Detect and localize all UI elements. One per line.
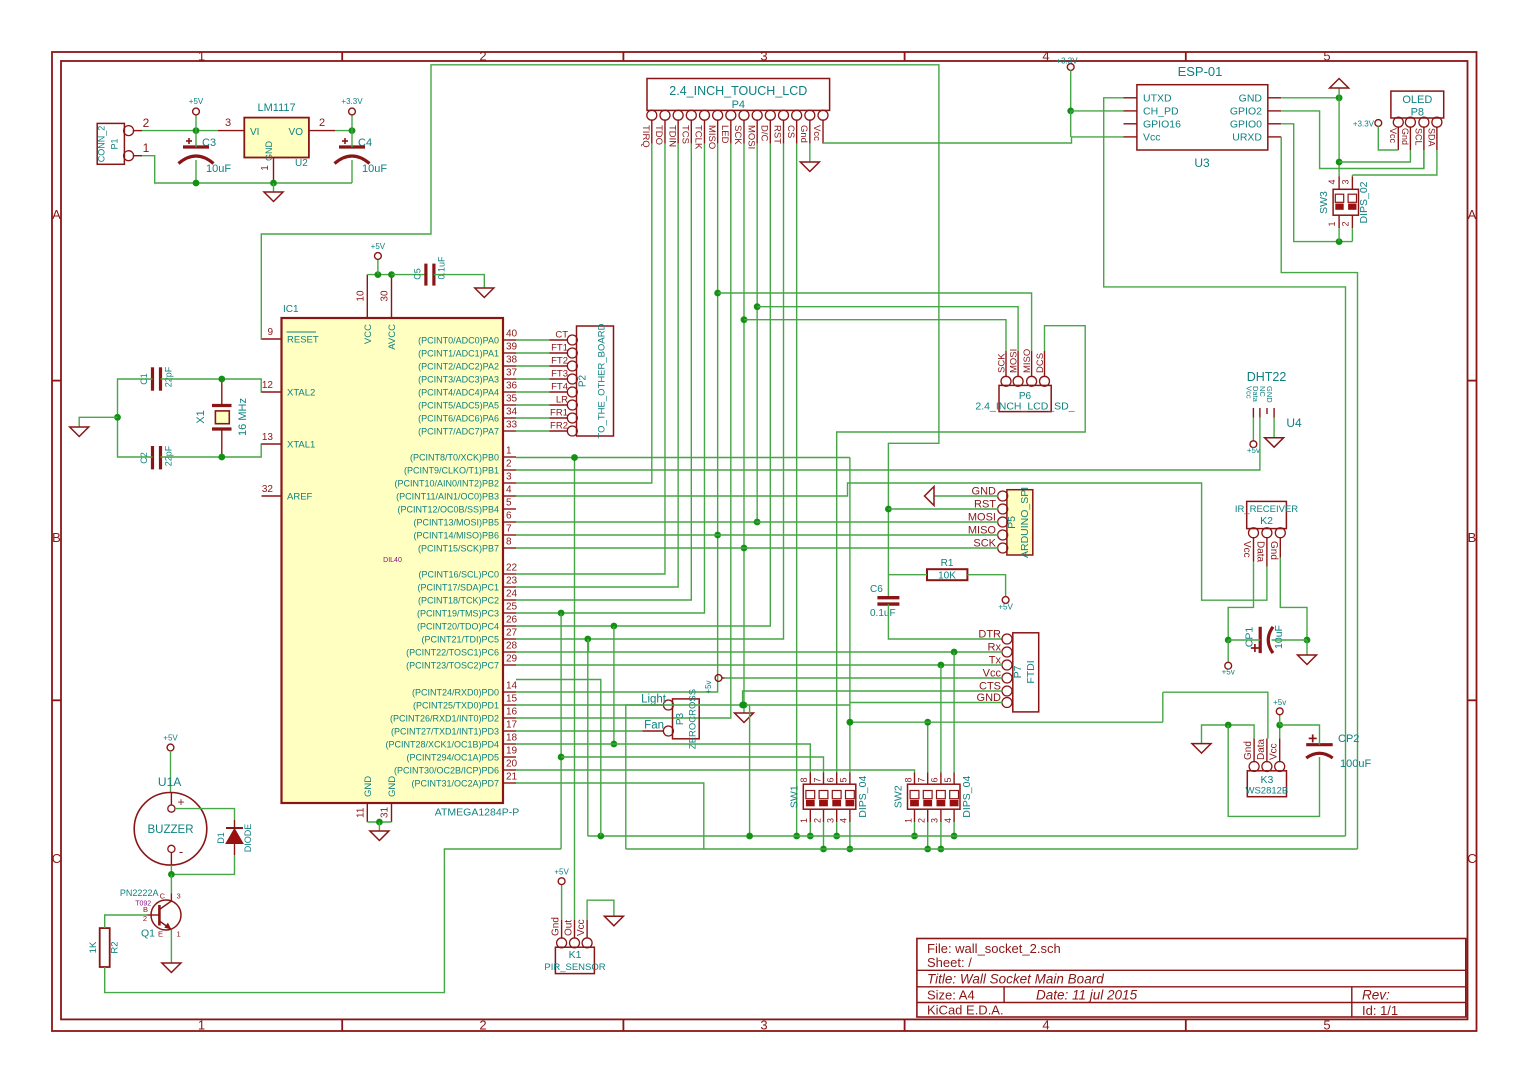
svg-text:(PCINT24/RXD0)PD0: (PCINT24/RXD0)PD0 bbox=[412, 688, 499, 698]
wire west link to bus 836 bbox=[516, 680, 601, 837]
wire SCK branch to P6 bbox=[744, 320, 1006, 351]
svg-text:ZEROCROSS: ZEROCROSS bbox=[688, 689, 699, 749]
wire DCS loop to SW1 pin6 bbox=[837, 326, 1085, 773]
ground at CP1 bbox=[1298, 655, 1317, 665]
svg-text:SCL: SCL bbox=[1413, 128, 1423, 146]
svg-text:+5v: +5v bbox=[1247, 446, 1260, 455]
wire SDA to SW3 pin3 bbox=[1352, 150, 1437, 175]
svg-text:6: 6 bbox=[930, 777, 940, 782]
ground at crystal bbox=[70, 427, 89, 437]
svg-text:SDA: SDA bbox=[1426, 128, 1436, 147]
wire PIR Vcc to ground bbox=[587, 900, 614, 920]
svg-text:CS: CS bbox=[785, 125, 796, 138]
IC IC1 ATMEGA1284P-P bbox=[282, 318, 504, 803]
capacitor C1 22pF bbox=[151, 367, 154, 390]
svg-text:8: 8 bbox=[903, 777, 913, 782]
transistor Q1 PN2222A bbox=[151, 900, 181, 930]
connector P5 ARDUINO_SPI bbox=[1007, 490, 1033, 555]
connector P3 ZEROCROSS bbox=[673, 699, 700, 739]
svg-text:7: 7 bbox=[917, 777, 927, 782]
svg-text:TO_THE_OTHER_BOARD: TO_THE_OTHER_BOARD bbox=[597, 323, 608, 438]
title block bbox=[917, 939, 1466, 1018]
svg-text:+5v: +5v bbox=[704, 680, 713, 693]
wire K2 Data to PB3 bbox=[516, 483, 1267, 600]
wire PD5 to SW1 pin7 bbox=[561, 757, 823, 773]
svg-text:5: 5 bbox=[839, 777, 849, 782]
wire LCD Vcc to ESP Vcc 3.3V rail bbox=[823, 137, 1123, 143]
svg-text:22: 22 bbox=[506, 563, 518, 574]
power +5V at buzzer bbox=[167, 744, 174, 751]
svg-text:(PCINT25/TXD0)PD1: (PCINT25/TXD0)PD1 bbox=[413, 701, 499, 711]
svg-text:GPIO2: GPIO2 bbox=[1230, 105, 1262, 117]
svg-text:28: 28 bbox=[506, 641, 518, 652]
wire SW2 pin7 to 722 line bbox=[927, 722, 929, 772]
crystal X1 16 MHz bbox=[212, 404, 232, 407]
svg-text:AVCC: AVCC bbox=[387, 324, 398, 350]
wire LCD Gnd bbox=[809, 144, 811, 162]
svg-text:5: 5 bbox=[1323, 1018, 1330, 1033]
svg-text:UTXD: UTXD bbox=[1143, 92, 1172, 104]
switch SW1 DIPS_04 bbox=[803, 784, 856, 809]
power +5v at DHT22 bbox=[1250, 441, 1257, 448]
wire bus 849 bbox=[626, 848, 1358, 850]
svg-text:D/C: D/C bbox=[759, 125, 770, 142]
svg-text:10uF: 10uF bbox=[206, 163, 231, 175]
svg-text:B: B bbox=[143, 905, 148, 914]
svg-text:A: A bbox=[1468, 207, 1477, 222]
wire +5V rail to CP2 bbox=[1280, 725, 1320, 745]
wire buzzer to Q1 collector bbox=[170, 874, 172, 893]
svg-text:PN2222A: PN2222A bbox=[120, 888, 159, 898]
ground up at ESP GND bbox=[1330, 79, 1349, 89]
ground below LM1117 bbox=[264, 192, 283, 202]
wire D1 to buzzer minus bbox=[171, 855, 234, 874]
wire TCS to PC2 bbox=[516, 144, 691, 600]
svg-text:+3.3V: +3.3V bbox=[1056, 57, 1078, 66]
svg-text:C: C bbox=[160, 892, 166, 901]
ground at K3 bbox=[1192, 744, 1211, 754]
wire GPIO0 to SW3 bbox=[1281, 124, 1352, 242]
wire bus 836 bbox=[588, 835, 1346, 837]
wire P5 GND bbox=[934, 495, 999, 497]
svg-text:3: 3 bbox=[177, 892, 181, 901]
svg-text:0.1uF: 0.1uF bbox=[437, 256, 447, 280]
svg-text:32: 32 bbox=[262, 484, 274, 495]
wire ESP GND net bbox=[1281, 97, 1339, 99]
svg-text:2: 2 bbox=[479, 49, 486, 64]
svg-text:1: 1 bbox=[198, 49, 205, 64]
svg-text:(PCINT16/SCL)PC0: (PCINT16/SCL)PC0 bbox=[418, 570, 499, 580]
svg-text:5: 5 bbox=[943, 777, 953, 782]
wire UTXD to bottom bus bbox=[1104, 98, 1346, 836]
svg-text:FR1: FR1 bbox=[550, 408, 568, 419]
svg-text:SCK: SCK bbox=[732, 125, 743, 145]
wire PB6 to MISO net bbox=[516, 534, 718, 536]
svg-text:18: 18 bbox=[506, 733, 518, 744]
svg-text:38: 38 bbox=[506, 355, 518, 366]
wire C6 to DTR bbox=[888, 604, 1002, 639]
wire OLED Gnd to GND net bbox=[1339, 150, 1410, 162]
svg-text:10: 10 bbox=[355, 290, 366, 302]
svg-text:U3: U3 bbox=[1194, 156, 1210, 170]
capacitor C5 0.1uF bbox=[424, 264, 427, 286]
svg-text:K1: K1 bbox=[569, 949, 582, 961]
svg-text:U1A: U1A bbox=[158, 775, 181, 789]
svg-text:Data: Data bbox=[1256, 738, 1267, 760]
wire PC5 link down to bus bbox=[587, 639, 589, 836]
svg-text:40: 40 bbox=[506, 329, 518, 340]
svg-text:3: 3 bbox=[225, 117, 231, 129]
svg-text:+5V: +5V bbox=[189, 97, 204, 106]
svg-text:CONN_2: CONN_2 bbox=[97, 126, 107, 163]
svg-text:DHT22: DHT22 bbox=[1247, 370, 1287, 384]
svg-text:(PCINT3/ADC3)PA3: (PCINT3/ADC3)PA3 bbox=[418, 375, 499, 385]
svg-text:4: 4 bbox=[1042, 1018, 1049, 1033]
svg-text:IC1: IC1 bbox=[283, 304, 299, 315]
wire ground rail P1 pin1 to C4 bbox=[142, 156, 352, 183]
svg-text:Out: Out bbox=[564, 920, 575, 936]
svg-text:K3: K3 bbox=[1260, 774, 1273, 786]
svg-text:Vcc: Vcc bbox=[1241, 541, 1252, 558]
wire MOSI branch to P6 bbox=[757, 307, 1018, 351]
wire PD7 to bus 849 bbox=[516, 783, 704, 849]
svg-text:DIPS_04: DIPS_04 bbox=[857, 776, 869, 818]
svg-text:C6: C6 bbox=[870, 584, 883, 595]
svg-text:27: 27 bbox=[506, 628, 518, 639]
svg-text:30: 30 bbox=[380, 290, 391, 302]
wire 722 line bbox=[850, 721, 1163, 723]
capacitor C6 0.1uF bbox=[877, 596, 899, 599]
wire TCLK to PC3 bbox=[516, 144, 704, 613]
svg-text:GND: GND bbox=[264, 141, 274, 162]
svg-text:10K: 10K bbox=[938, 571, 956, 582]
svg-text:+3.3V: +3.3V bbox=[341, 97, 363, 106]
svg-text:1: 1 bbox=[506, 446, 512, 457]
power +5V at ATmega VCC bbox=[375, 253, 382, 260]
svg-text:Id: 1/1: Id: 1/1 bbox=[1362, 1003, 1398, 1018]
wire PB5 to SCK net bbox=[516, 521, 757, 523]
svg-text:4: 4 bbox=[1042, 49, 1049, 64]
svg-text:A: A bbox=[52, 207, 61, 222]
svg-text:URXD: URXD bbox=[1232, 131, 1262, 143]
svg-text:10uF: 10uF bbox=[362, 163, 387, 175]
svg-text:(PCINT13/MOSI)PB5: (PCINT13/MOSI)PB5 bbox=[413, 518, 499, 528]
svg-text:LED: LED bbox=[719, 125, 730, 144]
connector P4 2.4_INCH_TOUCH_LCD bbox=[647, 79, 830, 111]
wire K3 Gnd bbox=[1202, 725, 1255, 744]
wire Q1 base to R2 bbox=[105, 915, 148, 928]
wire P1 pin2 to LM1117 VI bbox=[142, 130, 218, 132]
wire LCD RST to PC5 bbox=[516, 144, 784, 639]
svg-text:37: 37 bbox=[506, 368, 518, 379]
svg-text:22pF: 22pF bbox=[164, 366, 174, 387]
svg-text:16 MHz: 16 MHz bbox=[237, 398, 249, 436]
svg-text:Sheet: /: Sheet: / bbox=[927, 955, 972, 970]
wire URXD to bottom bus bbox=[1281, 137, 1357, 849]
svg-text:CP1: CP1 bbox=[1244, 627, 1256, 648]
wire LCD MOSI to PB7 bbox=[756, 144, 758, 522]
svg-text:C2: C2 bbox=[139, 452, 149, 464]
wire Rx line PC6 bbox=[516, 651, 1003, 653]
power +3.3V at C4 bbox=[335, 130, 352, 132]
svg-text:(PCINT17/SDA)PC1: (PCINT17/SDA)PC1 bbox=[417, 583, 499, 593]
svg-text:DIL40: DIL40 bbox=[383, 557, 402, 564]
svg-text:3: 3 bbox=[1340, 179, 1350, 184]
wire PC4 link to PD4 bbox=[613, 626, 615, 744]
svg-text:6: 6 bbox=[506, 511, 512, 522]
svg-text:2: 2 bbox=[479, 1018, 486, 1033]
svg-text:Vcc: Vcc bbox=[811, 125, 822, 141]
svg-text:(PCINT9/CLKO/T1)PB1: (PCINT9/CLKO/T1)PB1 bbox=[404, 466, 499, 476]
svg-text:Gnd: Gnd bbox=[1268, 541, 1279, 560]
svg-text:(PCINT12/OC0B/SS)PB4: (PCINT12/OC0B/SS)PB4 bbox=[397, 505, 499, 515]
svg-text:(PCINT294/OC1A)PD5: (PCINT294/OC1A)PD5 bbox=[406, 753, 499, 763]
led K3 WS2812B bbox=[1247, 771, 1286, 797]
svg-text:29: 29 bbox=[506, 654, 518, 665]
svg-text:K2: K2 bbox=[1260, 515, 1273, 527]
svg-text:C3: C3 bbox=[202, 137, 216, 149]
svg-text:MOSI: MOSI bbox=[745, 125, 756, 149]
wire VCC AVCC rail bbox=[367, 274, 391, 276]
svg-text:2.4_INCH_LCD_SD_: 2.4_INCH_LCD_SD_ bbox=[975, 401, 1074, 413]
svg-text:XTAL2: XTAL2 bbox=[287, 388, 315, 399]
svg-text:LM1117: LM1117 bbox=[258, 102, 296, 114]
svg-text:DTR: DTR bbox=[978, 629, 1001, 641]
svg-text:1K: 1K bbox=[88, 941, 99, 953]
svg-text:SW1: SW1 bbox=[788, 785, 800, 808]
svg-text:B: B bbox=[52, 530, 61, 545]
svg-text:FT1: FT1 bbox=[551, 343, 568, 354]
wire PIR Out to PB0 bbox=[574, 458, 576, 921]
regulator U2 LM1117 bbox=[244, 118, 309, 158]
svg-text:9: 9 bbox=[267, 327, 273, 338]
svg-text:Gnd: Gnd bbox=[551, 917, 562, 936]
svg-text:4: 4 bbox=[506, 485, 512, 496]
power +3.3V at ESP bbox=[1067, 64, 1074, 71]
svg-text:(PCINT23/TOSC2)PC7: (PCINT23/TOSC2)PC7 bbox=[406, 661, 499, 671]
svg-text:+5V: +5V bbox=[998, 603, 1013, 612]
resistor R2 1K bbox=[100, 928, 110, 967]
svg-text:(PCINT20/TDO)PC4: (PCINT20/TDO)PC4 bbox=[417, 622, 499, 632]
wire C2 to XTAL1 bbox=[161, 444, 262, 457]
svg-text:13: 13 bbox=[262, 432, 274, 443]
svg-text:+5v: +5v bbox=[1222, 668, 1235, 677]
svg-text:20: 20 bbox=[506, 759, 518, 770]
wire C1 to XTAL2 bbox=[161, 379, 262, 392]
svg-text:TDIN: TDIN bbox=[666, 125, 677, 147]
svg-text:+5V: +5V bbox=[554, 868, 569, 877]
svg-text:34: 34 bbox=[506, 407, 518, 418]
svg-text:OLED: OLED bbox=[1402, 94, 1432, 106]
wire CP2 bottom loop bbox=[1228, 725, 1319, 816]
ground at PIR bbox=[604, 916, 623, 926]
svg-text:2: 2 bbox=[812, 818, 822, 823]
svg-text:1: 1 bbox=[799, 818, 809, 823]
svg-text:1: 1 bbox=[177, 930, 181, 939]
svg-text:(PCINT7/ADC7)PA7: (PCINT7/ADC7)PA7 bbox=[418, 427, 499, 437]
svg-text:2: 2 bbox=[506, 459, 512, 470]
svg-text:File: wall_socket_2.sch: File: wall_socket_2.sch bbox=[927, 941, 1061, 956]
wire RESET loop to R1 C6 bbox=[261, 65, 939, 597]
svg-text:10uF: 10uF bbox=[1273, 625, 1285, 649]
svg-text:(PCINT4/ADC4)PA4: (PCINT4/ADC4)PA4 bbox=[418, 388, 499, 398]
svg-text:B: B bbox=[1468, 530, 1477, 545]
svg-text:3: 3 bbox=[826, 818, 836, 823]
svg-text:4: 4 bbox=[839, 818, 849, 823]
svg-text:VO: VO bbox=[289, 127, 304, 138]
svg-text:VCC: VCC bbox=[363, 324, 374, 344]
wire P5 SCK bbox=[743, 547, 999, 549]
svg-text:TIRQ: TIRQ bbox=[640, 125, 651, 148]
svg-text:Vcc: Vcc bbox=[1269, 743, 1280, 760]
svg-text:(PCINT5/ADC5)PA5: (PCINT5/ADC5)PA5 bbox=[418, 401, 499, 411]
svg-text:3: 3 bbox=[760, 49, 767, 64]
svg-text:R1: R1 bbox=[941, 558, 954, 569]
svg-text:Gnd: Gnd bbox=[1243, 741, 1254, 760]
svg-text:2: 2 bbox=[917, 818, 927, 823]
svg-text:-: - bbox=[179, 844, 183, 859]
svg-text:2.4_INCH_TOUCH_LCD: 2.4_INCH_TOUCH_LCD bbox=[669, 84, 807, 98]
svg-text:(PCINT8/T0/XCK)PB0: (PCINT8/T0/XCK)PB0 bbox=[410, 453, 499, 463]
wire Fan to PD3 bbox=[516, 730, 642, 732]
ground at DHT22 bbox=[1265, 438, 1284, 448]
svg-text:VI: VI bbox=[250, 127, 259, 138]
wire D/C to PC4 bbox=[516, 144, 770, 626]
svg-text:(PCINT21/TDI)PC5: (PCINT21/TDI)PC5 bbox=[421, 635, 499, 645]
svg-text:8: 8 bbox=[799, 777, 809, 782]
wire +3.3V to OLED Vcc bbox=[1378, 126, 1398, 150]
wire C5 to ground bbox=[434, 275, 484, 288]
svg-text:(PCINT28/XCK1/OC1B)PD4: (PCINT28/XCK1/OC1B)PD4 bbox=[385, 740, 499, 750]
wire PB0 net vertical to SW1 pin5 bbox=[849, 458, 851, 773]
connector P6 2.4_INCH_LCD_SD_ bbox=[999, 385, 1051, 411]
svg-text:(PCINT0/ADC0)PA0: (PCINT0/ADC0)PA0 bbox=[418, 336, 499, 346]
wire DHT22 Data to PB1 bbox=[516, 418, 1260, 470]
svg-text:(PCINT18/TCK)PC2: (PCINT18/TCK)PC2 bbox=[418, 596, 499, 606]
svg-text:15: 15 bbox=[506, 694, 518, 705]
svg-text:FTDI: FTDI bbox=[1025, 660, 1037, 683]
svg-text:DCS: DCS bbox=[1035, 353, 1046, 373]
ground at Q1 emitter bbox=[162, 963, 181, 973]
svg-text:FT4: FT4 bbox=[551, 382, 568, 393]
svg-text:P1: P1 bbox=[110, 138, 120, 149]
svg-text:DIODE: DIODE bbox=[243, 824, 253, 853]
svg-text:P4: P4 bbox=[732, 99, 745, 111]
wire crystal left rail bbox=[118, 379, 153, 457]
connector P8 OLED bbox=[1391, 91, 1444, 118]
svg-text:U4: U4 bbox=[1286, 416, 1302, 430]
svg-text:Size: A4: Size: A4 bbox=[927, 988, 975, 1003]
svg-text:+5V: +5V bbox=[371, 242, 386, 251]
wire Tx line PC7 bbox=[516, 664, 1003, 666]
svg-text:IR_RECEIVER: IR_RECEIVER bbox=[1235, 504, 1298, 515]
wire Tx branch to SW2 pin6 bbox=[940, 665, 942, 773]
wire K3 Data feed bbox=[1163, 692, 1268, 738]
svg-text:FT2: FT2 bbox=[551, 356, 568, 367]
switch SW2 DIPS_04 bbox=[908, 784, 961, 809]
svg-text:2: 2 bbox=[1340, 221, 1350, 226]
wire R2 to bottom bus west bbox=[105, 849, 561, 993]
power +5v at FTDI Vcc bbox=[715, 675, 722, 682]
svg-text:17: 17 bbox=[506, 720, 518, 731]
svg-text:6: 6 bbox=[826, 777, 836, 782]
svg-text:SW3: SW3 bbox=[1318, 191, 1330, 214]
wire GPIO2 to SCL bbox=[1281, 111, 1424, 169]
svg-text:C5: C5 bbox=[413, 268, 423, 280]
svg-text:(PCINT6/ADC6)PA6: (PCINT6/ADC6)PA6 bbox=[418, 414, 499, 424]
svg-text:P3: P3 bbox=[675, 712, 686, 725]
svg-text:GND: GND bbox=[387, 776, 398, 797]
svg-text:(PCINT10/AIN0/INT2)PB2: (PCINT10/AIN0/INT2)PB2 bbox=[394, 479, 499, 489]
wire K2 Vcc to CP1 bbox=[1228, 562, 1253, 640]
svg-text:24: 24 bbox=[506, 589, 518, 600]
power +5V at C3 bbox=[195, 115, 197, 131]
svg-text:ATMEGA1284P-P: ATMEGA1284P-P bbox=[435, 807, 519, 819]
wire Rx branch to SW2 pin5 bbox=[953, 652, 955, 773]
wire LCD CS down to bus bbox=[796, 144, 798, 836]
svg-text:0.1uF: 0.1uF bbox=[870, 608, 896, 619]
svg-text:D1: D1 bbox=[216, 832, 226, 844]
svg-text:GND: GND bbox=[1265, 386, 1274, 403]
svg-text:25: 25 bbox=[506, 602, 518, 613]
module U3 ESP-01 bbox=[1137, 85, 1268, 150]
capacitor C4 10uF bbox=[339, 145, 365, 148]
svg-text:ARDUINO_SPI: ARDUINO_SPI bbox=[1019, 487, 1031, 558]
svg-text:23: 23 bbox=[506, 576, 518, 587]
svg-text:5: 5 bbox=[506, 498, 512, 509]
svg-text:+3.3V: +3.3V bbox=[1353, 120, 1375, 129]
svg-text:DIPS_02: DIPS_02 bbox=[1358, 181, 1370, 223]
svg-text:(PCINT22/TOSC1)PC6: (PCINT22/TOSC1)PC6 bbox=[406, 648, 499, 658]
svg-text:CP2: CP2 bbox=[1338, 733, 1359, 745]
svg-text:26: 26 bbox=[506, 615, 518, 626]
power +5v at K3 bbox=[1276, 708, 1283, 715]
svg-text:4: 4 bbox=[943, 818, 953, 823]
svg-text:SW2: SW2 bbox=[893, 785, 905, 808]
svg-text:E: E bbox=[158, 930, 163, 939]
svg-text:P8: P8 bbox=[1411, 107, 1424, 119]
wire LCD SCK down to PD1 node bbox=[743, 144, 745, 705]
svg-text:1: 1 bbox=[143, 141, 150, 155]
resistor R1 10K bbox=[927, 569, 967, 580]
svg-text:(PCINT1/ADC1)PA1: (PCINT1/ADC1)PA1 bbox=[418, 349, 499, 359]
svg-text:(PCINT30/OC2B/ICP)PD6: (PCINT30/OC2B/ICP)PD6 bbox=[394, 766, 499, 776]
svg-text:AREF: AREF bbox=[287, 492, 313, 503]
svg-text:C: C bbox=[52, 851, 61, 866]
svg-text:Date: 11 jul 2015: Date: 11 jul 2015 bbox=[1036, 988, 1138, 1003]
svg-text:(PCINT19/TMS)PC3: (PCINT19/TMS)PC3 bbox=[417, 609, 499, 619]
svg-text:SCK: SCK bbox=[997, 353, 1008, 373]
svg-text:MOSI: MOSI bbox=[1009, 349, 1020, 373]
connector P7 FTDI bbox=[1013, 633, 1039, 712]
svg-text:WS2812B: WS2812B bbox=[1246, 786, 1289, 797]
svg-text:(PCINT15/SCK)PB7: (PCINT15/SCK)PB7 bbox=[418, 544, 499, 554]
svg-text:Fan: Fan bbox=[644, 720, 664, 732]
svg-text:P2: P2 bbox=[578, 374, 589, 387]
svg-text:3: 3 bbox=[760, 1018, 767, 1033]
svg-text:CH_PD: CH_PD bbox=[1143, 105, 1179, 117]
svg-text:GPIO0: GPIO0 bbox=[1230, 118, 1262, 130]
svg-text:(PCINT11/AIN1/OC0)PB3: (PCINT11/AIN1/OC0)PB3 bbox=[396, 492, 499, 502]
svg-text:(PCINT26/RXD1/INT0)PD2: (PCINT26/RXD1/INT0)PD2 bbox=[390, 714, 499, 724]
svg-text:PIR_SENSOR: PIR_SENSOR bbox=[544, 962, 605, 973]
svg-text:(PCINT14/MISO)PB6: (PCINT14/MISO)PB6 bbox=[413, 531, 499, 541]
svg-text:TCS: TCS bbox=[680, 125, 691, 144]
svg-text:(PCINT2/ADC2)PA2: (PCINT2/ADC2)PA2 bbox=[418, 362, 499, 372]
svg-text:1: 1 bbox=[903, 818, 913, 823]
svg-text:5: 5 bbox=[1323, 49, 1330, 64]
svg-text:BUZZER: BUZZER bbox=[148, 824, 194, 836]
